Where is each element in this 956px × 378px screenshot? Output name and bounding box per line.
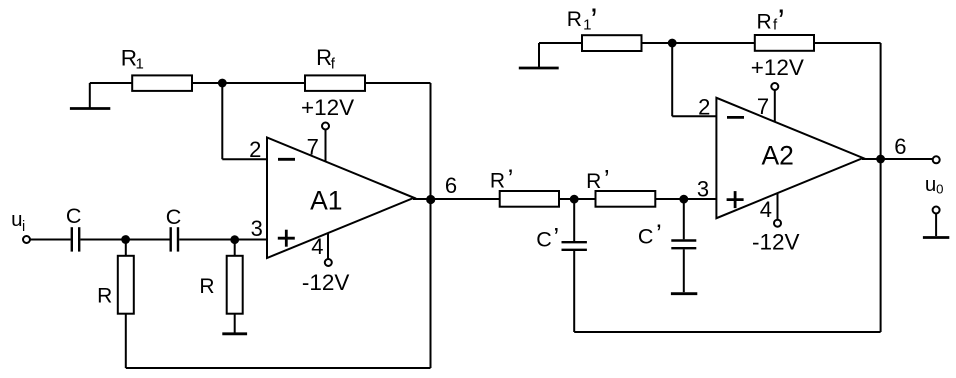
svg-text:3: 3 [697, 176, 709, 201]
svg-text:’: ’ [508, 163, 514, 193]
svg-text:A1: A1 [310, 186, 342, 216]
svg-text:4: 4 [760, 197, 772, 222]
svg-text:7: 7 [307, 134, 319, 159]
svg-text:R: R [757, 11, 772, 34]
svg-text:R: R [199, 275, 214, 298]
svg-text:6: 6 [894, 134, 906, 159]
svg-text:4: 4 [311, 234, 323, 259]
svg-text:0: 0 [936, 182, 943, 197]
svg-text:’: ’ [656, 219, 662, 249]
svg-text:6: 6 [445, 173, 457, 198]
svg-text:u: u [925, 173, 936, 196]
svg-text:A2: A2 [762, 140, 794, 170]
svg-text:i: i [22, 219, 25, 235]
svg-text:’: ’ [604, 164, 610, 194]
svg-text:R: R [97, 285, 112, 308]
svg-text:u: u [11, 208, 22, 231]
svg-text:3: 3 [251, 216, 263, 241]
svg-text:C: C [638, 225, 654, 249]
svg-text:’: ’ [553, 222, 559, 252]
svg-text:1: 1 [136, 55, 144, 72]
svg-text:R: R [316, 45, 332, 70]
svg-text:’: ’ [590, 2, 597, 38]
svg-text:7: 7 [757, 94, 769, 119]
svg-text:+12V: +12V [751, 55, 804, 80]
svg-text:’: ’ [778, 3, 785, 39]
svg-text:R: R [490, 170, 505, 193]
svg-text:R: R [586, 170, 601, 193]
svg-text:C: C [536, 228, 552, 252]
svg-text:+12V: +12V [301, 95, 354, 120]
svg-text:C: C [66, 204, 82, 228]
svg-text:2: 2 [249, 137, 261, 162]
svg-text:C: C [166, 205, 182, 229]
svg-text:R: R [567, 8, 582, 31]
svg-text:-12V: -12V [752, 230, 800, 255]
svg-text:2: 2 [698, 94, 710, 119]
svg-text:-12V: -12V [302, 270, 350, 295]
